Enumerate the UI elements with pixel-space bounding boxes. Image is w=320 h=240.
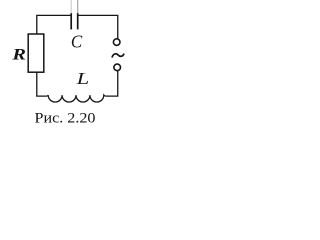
- wire top-left + left vertical: [37, 15, 72, 34]
- AC source tilde: [112, 54, 124, 57]
- capacitor C plate left faded top: [70, 0, 72, 14]
- resistor R: [28, 34, 44, 72]
- AC source terminal top: [113, 39, 120, 46]
- wire left vertical (below resistor) + bottom-left horizontal: [37, 72, 47, 96]
- wire bottom-right horizontal + right vertical to bottom terminal: [106, 71, 118, 96]
- capacitor C plate right: [77, 13, 79, 29]
- wire top-right + right vertical to top terminal: [78, 15, 118, 38]
- capacitor C plate right faded top: [77, 0, 79, 14]
- svg-text:R: R: [11, 47, 26, 64]
- inductor L1: [46, 95, 106, 102]
- svg-text:L: L: [75, 69, 89, 88]
- svg-text:Рис. 2.20: Рис. 2.20: [35, 110, 96, 126]
- svg-text:C: C: [71, 32, 83, 52]
- capacitor C plate left: [70, 13, 72, 29]
- AC source terminal bottom: [114, 64, 121, 71]
